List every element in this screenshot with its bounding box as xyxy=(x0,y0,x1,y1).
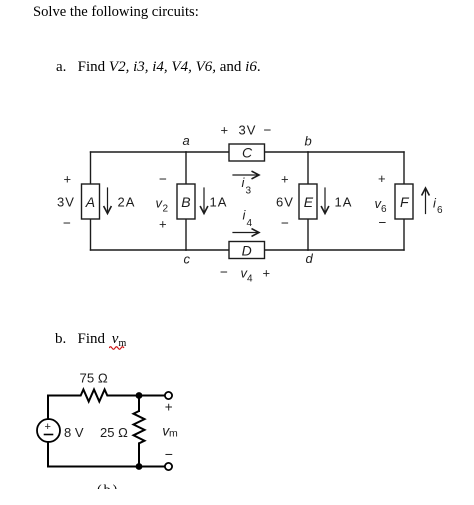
wire branch E upper xyxy=(307,152,309,184)
svg-text:d: d xyxy=(306,251,314,266)
svg-text:A: A xyxy=(85,194,95,210)
svg-text:4: 4 xyxy=(247,218,253,229)
wire left edge lower xyxy=(90,219,92,250)
item a prompt xyxy=(56,59,261,76)
wire bottom to terminal xyxy=(139,466,165,468)
svg-text:+: + xyxy=(165,399,173,414)
junction dot bottom xyxy=(136,463,143,470)
svg-text:3V: 3V xyxy=(57,194,74,209)
svg-text:−: − xyxy=(159,172,167,187)
svg-text:6: 6 xyxy=(381,204,387,215)
wire top-left: node to a xyxy=(91,151,187,153)
wire branch E lower xyxy=(307,219,309,250)
svg-text:D: D xyxy=(242,243,252,259)
svg-text:E: E xyxy=(304,194,314,210)
current arrow 1A (E) xyxy=(321,188,329,214)
wire left edge upper xyxy=(90,152,92,184)
svg-text:−: − xyxy=(220,265,228,280)
svg-text:4: 4 xyxy=(247,274,253,285)
wire D to d xyxy=(265,249,309,251)
wire 25ohm top xyxy=(138,396,140,412)
wire right edge lower xyxy=(403,219,405,250)
label v4 xyxy=(241,266,254,285)
current arrow i6 xyxy=(422,188,430,214)
wire branch B upper xyxy=(185,152,187,184)
wire resistor to junction xyxy=(110,395,139,397)
svg-text:C: C xyxy=(242,145,253,161)
element B xyxy=(177,184,195,219)
element A xyxy=(82,184,100,219)
wire junction to terminal xyxy=(139,395,165,397)
wire source top xyxy=(47,396,49,420)
terminal top xyxy=(165,392,172,399)
wire source bottom xyxy=(47,442,49,467)
wire a to C xyxy=(186,151,229,153)
item b prompt xyxy=(55,331,126,349)
svg-text:6V: 6V xyxy=(276,194,293,209)
wire bottom xyxy=(48,466,139,468)
wire C to b xyxy=(265,151,309,153)
svg-text:−: − xyxy=(165,446,173,462)
current arrow 1A (B) xyxy=(200,188,208,214)
label v2 xyxy=(156,196,169,215)
title text xyxy=(33,4,199,21)
label i3 xyxy=(242,175,252,197)
svg-text:c: c xyxy=(184,252,191,267)
label i6 xyxy=(433,196,443,217)
wire b to top-right xyxy=(308,151,404,153)
svg-text:+: + xyxy=(221,123,229,138)
current arrow i3 xyxy=(233,171,259,179)
svg-text:a: a xyxy=(183,133,190,148)
svg-text:3V: 3V xyxy=(239,123,256,138)
svg-text:−: − xyxy=(63,216,71,231)
current arrow i4 xyxy=(233,229,259,237)
svg-text:−: − xyxy=(379,215,387,230)
svg-text:b: b xyxy=(305,134,312,149)
svg-text:m: m xyxy=(169,428,178,440)
element E xyxy=(299,184,317,219)
svg-text:+: + xyxy=(281,172,289,187)
wire d to bottom-right xyxy=(308,249,404,251)
svg-text:3: 3 xyxy=(246,186,252,197)
svg-text:+: + xyxy=(45,421,51,433)
label i4 xyxy=(243,208,253,230)
svg-text:−: − xyxy=(281,216,289,231)
element C xyxy=(229,144,265,161)
svg-text:25 Ω: 25 Ω xyxy=(100,425,128,440)
wire 25ohm bottom xyxy=(138,443,140,466)
wire bottom-left: to c xyxy=(91,249,187,251)
cut-off text fragment at bottom xyxy=(97,483,119,489)
wire right edge upper xyxy=(403,152,405,184)
voltage source 8V xyxy=(37,419,60,442)
wire c to D xyxy=(186,249,229,251)
svg-text:1A: 1A xyxy=(210,194,227,209)
circuit a schematic xyxy=(0,0,474,300)
wire top-left xyxy=(48,395,78,397)
current arrow 2A xyxy=(104,188,112,214)
svg-text:+: + xyxy=(378,171,386,186)
svg-text:2A: 2A xyxy=(118,194,135,209)
svg-text:+: + xyxy=(263,266,271,281)
svg-text:F: F xyxy=(400,194,410,210)
svg-text:8 V: 8 V xyxy=(64,425,84,440)
svg-text:2: 2 xyxy=(163,204,169,215)
terminal bottom xyxy=(165,463,172,470)
svg-text:B: B xyxy=(181,194,190,210)
wire branch B lower xyxy=(185,219,187,250)
label v6 xyxy=(375,196,388,215)
svg-text:+: + xyxy=(64,172,72,187)
circuit b schematic xyxy=(0,360,250,505)
svg-text:6: 6 xyxy=(437,205,443,216)
svg-text:+: + xyxy=(159,217,167,232)
svg-text:1A: 1A xyxy=(335,194,352,209)
svg-text:−: − xyxy=(264,123,272,138)
resistor 25ohm xyxy=(134,411,145,443)
resistor 75ohm xyxy=(78,390,110,402)
red squiggle under vm xyxy=(109,345,129,351)
label vm xyxy=(162,423,178,440)
svg-text:75 Ω: 75 Ω xyxy=(80,371,108,386)
element D xyxy=(229,242,265,259)
junction dot top xyxy=(136,392,143,399)
element F xyxy=(395,184,413,219)
